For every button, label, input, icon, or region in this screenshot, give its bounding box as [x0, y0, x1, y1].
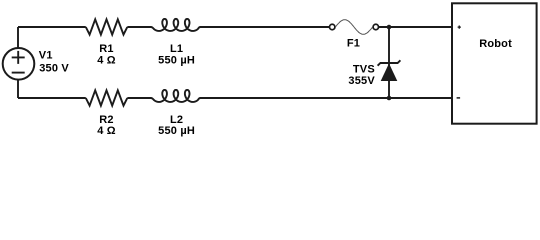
svg-text:355V: 355V [348, 75, 375, 87]
voltage source V1 circle [3, 48, 35, 80]
robot terminal plus [458, 26, 461, 29]
TVS cathode bar [378, 60, 401, 65]
resistor R2 [86, 90, 128, 105]
svg-text:L2: L2 [170, 114, 183, 126]
svg-text:F1: F1 [347, 38, 360, 50]
robot terminal minus [457, 97, 461, 99]
wire left rail bottom vertical [17, 79, 19, 98]
wire L2 to robot [200, 97, 452, 99]
V1 minus sign [12, 72, 25, 74]
svg-text:R2: R2 [99, 114, 113, 126]
wire top-left horizontal [18, 26, 86, 28]
svg-text:550 µH: 550 µH [158, 55, 195, 67]
svg-text:R1: R1 [99, 43, 113, 55]
svg-text:TVS: TVS [353, 64, 375, 76]
wire left rail top vertical [17, 27, 19, 49]
V1 plus sign [12, 51, 25, 64]
TVS diode triangle [381, 63, 398, 81]
inductor L2 [151, 90, 201, 102]
junction node top [387, 25, 392, 30]
wire R1 to L1 [127, 26, 151, 28]
svg-text:550 µH: 550 µH [158, 125, 195, 137]
svg-text:Robot: Robot [479, 38, 512, 50]
TVS branch vertical wire [388, 27, 390, 98]
resistor R1 [86, 19, 128, 34]
wire L1 to fuse [200, 26, 329, 28]
wire R2 to L2 [127, 97, 151, 99]
robot load box [452, 3, 537, 123]
svg-text:350 V: 350 V [39, 63, 69, 75]
svg-text:L1: L1 [170, 43, 183, 55]
svg-text:4 Ω: 4 Ω [97, 55, 116, 67]
fuse F1 left terminal [330, 24, 335, 29]
inductor L1 [151, 19, 201, 31]
junction node bottom [387, 96, 392, 101]
wire bottom-left horizontal [18, 97, 86, 99]
fuse F1 element wire [335, 20, 372, 35]
svg-text:V1: V1 [39, 50, 53, 62]
svg-text:4 Ω: 4 Ω [97, 125, 116, 137]
fuse F1 right terminal [373, 24, 378, 29]
wire fuse to robot [379, 26, 452, 28]
